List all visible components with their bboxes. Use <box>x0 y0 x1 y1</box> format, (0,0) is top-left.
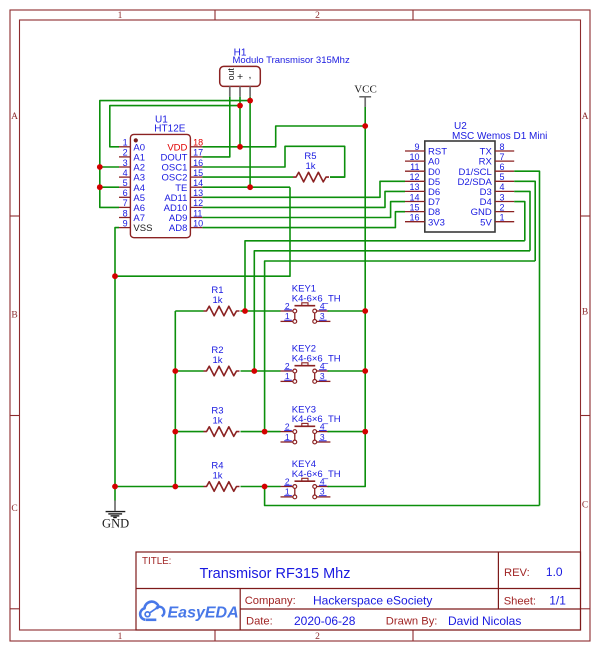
U1 pin 14 TE <box>175 178 203 194</box>
IC U2 MSC Wemos D1 Mini body <box>425 121 548 232</box>
svg-text:6: 6 <box>123 188 128 198</box>
svg-text:Company:: Company: <box>245 595 296 607</box>
svg-text:EasyEDA: EasyEDA <box>168 605 239 622</box>
svg-text:14: 14 <box>409 192 419 202</box>
svg-text:13: 13 <box>409 182 419 192</box>
U2 pin 4 D3 <box>480 182 515 198</box>
svg-text:10: 10 <box>193 218 203 228</box>
svg-text:VSS: VSS <box>133 223 152 234</box>
svg-text:4: 4 <box>320 361 325 371</box>
U1 pin 10 AD8 <box>169 218 203 234</box>
svg-text:4: 4 <box>123 168 128 178</box>
svg-text:3: 3 <box>320 487 325 497</box>
svg-text:18: 18 <box>193 138 203 148</box>
U2 pin 1 5V <box>480 213 514 229</box>
svg-text:Sheet:: Sheet: <box>504 595 536 607</box>
wire U1 AD9 to U2 D7 <box>202 202 405 218</box>
H1 pin 1 out stem <box>229 86 231 96</box>
junction R rail R2 <box>172 368 178 374</box>
resistor R1 <box>204 285 240 316</box>
module H1 Modulo Transmisor 315Mhz <box>220 47 350 96</box>
svg-text:MSC Wemos D1 Mini: MSC Wemos D1 Mini <box>452 131 547 142</box>
svg-text:1.0: 1.0 <box>546 565 563 579</box>
junction R1 right <box>242 308 248 314</box>
svg-text:1: 1 <box>285 432 290 442</box>
svg-text:2020-06-28: 2020-06-28 <box>294 614 356 628</box>
svg-text:2: 2 <box>285 361 290 371</box>
svg-text:3: 3 <box>123 158 128 168</box>
svg-text:2: 2 <box>315 632 320 642</box>
svg-text:1: 1 <box>118 632 123 642</box>
svg-text:12: 12 <box>193 198 203 208</box>
wire H1 pin3 vertical <box>249 97 251 187</box>
wire R3 to KEY3 pin2 <box>241 431 281 433</box>
svg-text:15: 15 <box>193 168 203 178</box>
U2 pin 12 D5 <box>405 172 440 188</box>
U1 pin 15 OSC2 <box>162 168 204 184</box>
svg-text:2: 2 <box>500 202 505 212</box>
wire KEY3 pin4 to VCC <box>328 431 366 433</box>
U1 pin 5 A4 <box>119 178 145 194</box>
svg-text:15: 15 <box>409 202 419 212</box>
svg-text:HT12E: HT12E <box>154 124 185 135</box>
wire KEY1 pin4 to VCC <box>328 310 366 312</box>
svg-text:3: 3 <box>320 311 325 321</box>
svg-text:10: 10 <box>409 152 419 162</box>
svg-text:6: 6 <box>500 162 505 172</box>
svg-text:5: 5 <box>500 172 505 182</box>
svg-text:,: , <box>249 69 252 81</box>
svg-text:8: 8 <box>500 142 505 152</box>
svg-text:VCC: VCC <box>354 84 377 96</box>
svg-text:1: 1 <box>118 11 123 21</box>
U2 pin 11 D0 <box>405 162 440 178</box>
svg-text:Hackerspace eSociety: Hackerspace eSociety <box>313 593 432 607</box>
svg-text:11: 11 <box>193 208 202 218</box>
svg-text:7: 7 <box>500 152 505 162</box>
wire R1 to KEY1 pin2 <box>241 310 281 312</box>
U1 pin 2 A1 <box>119 148 145 164</box>
junction TE row <box>247 184 253 190</box>
wire R3 left lead <box>175 431 203 433</box>
svg-text:+: + <box>237 71 243 83</box>
svg-text:out: out <box>226 68 236 81</box>
svg-text:5: 5 <box>123 178 128 188</box>
wire resistor left rail <box>174 311 176 487</box>
svg-text:13: 13 <box>193 188 203 198</box>
svg-text:4: 4 <box>320 421 325 431</box>
U1 pin 16 OSC1 <box>162 158 204 174</box>
wire U1 AD8 to U2 D8 <box>202 212 405 228</box>
resistor R2 <box>204 345 240 376</box>
U2 pin 16 3V3 <box>405 213 445 229</box>
svg-text:REV:: REV: <box>504 567 530 579</box>
ground GND <box>102 501 129 531</box>
svg-text:3: 3 <box>500 192 505 202</box>
svg-text:Date:: Date: <box>246 615 273 627</box>
U1 pin 11 AD9 <box>169 208 203 224</box>
svg-text:3V3: 3V3 <box>428 217 445 228</box>
svg-text:1: 1 <box>500 213 505 223</box>
wire U1 AD10 to U2 D6 <box>202 191 405 207</box>
svg-text:2: 2 <box>285 421 290 431</box>
svg-text:TITLE:: TITLE: <box>142 556 171 567</box>
svg-text:C: C <box>11 504 17 514</box>
junction H1 pin2 / A0 <box>237 103 243 109</box>
junction GND row <box>112 484 118 490</box>
svg-text:1: 1 <box>285 371 290 381</box>
wire U2 D1/SCL to KEY4 <box>514 171 539 505</box>
svg-text:1k: 1k <box>212 416 222 427</box>
svg-text:3: 3 <box>320 371 325 381</box>
junction VCC KEY1 <box>362 308 368 314</box>
svg-text:1: 1 <box>285 311 290 321</box>
U1 pin 17 DOUT <box>160 148 203 164</box>
junction R rail R4 <box>172 484 178 490</box>
svg-text:9: 9 <box>414 142 419 152</box>
wire U1 A0 to H1 pin2 net <box>110 106 240 147</box>
junction A2 <box>97 164 103 170</box>
svg-text:Drawn By:: Drawn By: <box>386 615 438 627</box>
junction VCC KEY2 <box>362 368 368 374</box>
svg-text:K4-6×6_TH: K4-6×6_TH <box>292 414 341 425</box>
svg-text:AD8: AD8 <box>169 223 187 234</box>
junction H1 pin3 / gnd rail <box>247 98 253 104</box>
svg-text:17: 17 <box>193 148 203 158</box>
wire U1 DOUT to H1 out <box>202 97 229 157</box>
U2 pin 8 TX <box>480 142 515 158</box>
svg-text:GND: GND <box>102 517 129 531</box>
svg-text:8: 8 <box>123 208 128 218</box>
svg-text:1: 1 <box>123 138 128 148</box>
svg-text:3: 3 <box>320 432 325 442</box>
junction R2 right <box>251 368 257 374</box>
svg-text:K4-6×6_TH: K4-6×6_TH <box>292 354 341 365</box>
power flag VCC <box>354 84 377 108</box>
svg-text:K4-6×6_TH: K4-6×6_TH <box>292 469 341 480</box>
H1 pin 3 , stem <box>249 86 251 96</box>
wire U1 VSS down to GND <box>115 228 119 501</box>
wire U1 OSC2 to R5 left <box>202 176 293 178</box>
U2 pin 3 D4 <box>480 192 515 208</box>
wire KEY2 node up <box>254 251 530 371</box>
svg-text:2: 2 <box>123 148 128 158</box>
junction VCC <box>362 123 368 129</box>
U2 pin 13 D6 <box>405 182 440 198</box>
svg-text:14: 14 <box>193 178 203 188</box>
svg-text:A: A <box>11 112 18 122</box>
junction R4 right <box>262 484 268 490</box>
U1 pin 13 AD11 <box>164 188 203 204</box>
svg-text:4: 4 <box>320 476 325 486</box>
wire R4 to KEY4 pin2 <box>241 486 281 488</box>
title text <box>142 556 566 628</box>
svg-text:Transmisor RF315 Mhz: Transmisor RF315 Mhz <box>200 566 351 582</box>
svg-text:1k: 1k <box>212 295 222 306</box>
wire KEY2 pin4 to VCC <box>328 370 366 372</box>
wire U2 D2/SDA to KEY3 <box>514 181 535 261</box>
wire H1 pin2 vertical <box>239 97 241 147</box>
junction VSS / TE branch <box>112 273 118 279</box>
junction A4 <box>97 184 103 190</box>
U1 pin 4 A3 <box>119 168 145 184</box>
U1 pin 9 VSS <box>119 218 152 234</box>
wire U1 VDD to VCC <box>202 126 365 147</box>
wire KEY1 node up <box>245 241 525 311</box>
U1 pin 18 VDD <box>167 138 203 154</box>
wire U2 D4 to KEY1 <box>514 202 525 241</box>
U2 pin 7 RX <box>479 152 515 168</box>
svg-text:A: A <box>582 112 589 122</box>
svg-text:B: B <box>11 311 17 321</box>
svg-text:1k: 1k <box>212 471 222 482</box>
wire R5 right lead <box>330 176 345 178</box>
wire R2 to KEY2 pin2 <box>241 370 281 372</box>
U1 pin 12 AD10 <box>164 198 203 214</box>
U2 pin 2 GND <box>471 202 515 218</box>
U2 pin 6 D1/SCL <box>459 162 515 178</box>
U2 pin 15 D8 <box>405 202 440 218</box>
svg-text:1k: 1k <box>305 161 315 172</box>
svg-text:7: 7 <box>123 198 128 208</box>
U1 pin 8 A7 <box>119 208 145 224</box>
wire U1 A4 branch <box>100 186 119 188</box>
svg-text:2: 2 <box>285 301 290 311</box>
wire U1 AD11 to U2 D5 <box>202 181 405 197</box>
svg-text:B: B <box>582 308 588 318</box>
svg-text:16: 16 <box>409 213 419 223</box>
junction VCC KEY3 <box>362 429 368 435</box>
svg-text:K4-6×6_TH: K4-6×6_TH <box>292 294 341 305</box>
svg-text:5V: 5V <box>480 217 492 228</box>
svg-text:4: 4 <box>500 182 505 192</box>
U1 pin 7 A6 <box>119 198 145 214</box>
U1 pin 6 A5 <box>119 188 145 204</box>
junction R rail R3 <box>172 429 178 435</box>
svg-text:1k: 1k <box>212 355 222 366</box>
svg-text:C: C <box>582 501 588 511</box>
svg-text:2: 2 <box>315 11 320 21</box>
U2 pin 9 RST <box>405 142 447 158</box>
wire GND row to R4 <box>115 486 204 488</box>
U1 pin 3 A2 <box>119 158 145 174</box>
wire U2 D3 to KEY2 <box>514 191 530 250</box>
resistor R4 <box>204 461 240 492</box>
wire KEY4 node down <box>265 487 540 506</box>
wire U1 A6 up-left rail to H1 pin3 net <box>100 101 250 208</box>
svg-text:1/1: 1/1 <box>549 593 566 607</box>
svg-text:1: 1 <box>285 487 290 497</box>
svg-text:4: 4 <box>320 301 325 311</box>
junction R3 right <box>262 429 268 435</box>
wire GND branch to U1 TE <box>115 187 290 276</box>
U2 pin 14 D7 <box>405 192 440 208</box>
svg-text:12: 12 <box>409 172 419 182</box>
wire U1 A2 branch <box>100 166 119 168</box>
wire VCC rail vertical <box>328 107 366 487</box>
wire KEY3 node up <box>265 261 536 432</box>
pushbutton KEY1 K4-6x6_TH <box>281 284 341 324</box>
pushbutton KEY3 K4-6x6_TH <box>281 404 341 444</box>
U1 pin 1 A0 <box>119 138 145 154</box>
svg-text:16: 16 <box>193 158 203 168</box>
U2 pin 5 D2/SDA <box>457 172 514 188</box>
svg-text:2: 2 <box>285 476 290 486</box>
junction VDD row <box>237 144 243 150</box>
svg-text:11: 11 <box>410 162 419 172</box>
EasyEDA logo <box>140 602 238 622</box>
title block <box>136 552 581 630</box>
H1 pin 2 + stem <box>239 86 241 96</box>
pushbutton KEY2 K4-6x6_TH <box>281 344 341 384</box>
svg-text:Modulo Transmisor 315Mhz: Modulo Transmisor 315Mhz <box>233 55 350 66</box>
U2 pin 10 A0 <box>405 152 440 168</box>
op IC U1 HT12E body <box>130 115 190 238</box>
wire R2 left lead <box>175 370 203 372</box>
wire U1 OSC1 loop to R5 <box>202 146 344 177</box>
resistor R3 <box>204 406 240 437</box>
svg-text:David Nicolas: David Nicolas <box>448 614 521 628</box>
pushbutton KEY4 K4-6x6_TH <box>281 459 341 499</box>
wire R1 left lead <box>175 310 203 312</box>
svg-text:9: 9 <box>123 218 128 228</box>
resistor R5 <box>293 151 329 182</box>
wire U1 TE row <box>202 186 290 188</box>
